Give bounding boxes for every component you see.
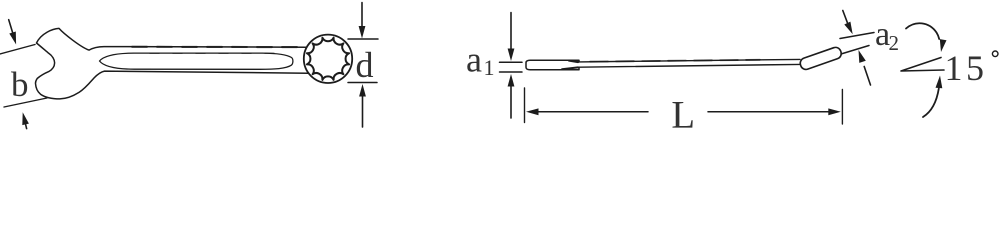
svg-text:a: a <box>466 40 482 80</box>
svg-text:1: 1 <box>484 55 495 80</box>
svg-text:d: d <box>356 45 374 85</box>
svg-text:1: 1 <box>945 48 963 88</box>
svg-text:5: 5 <box>966 48 984 88</box>
svg-text:b: b <box>11 65 29 104</box>
svg-text:L: L <box>671 95 695 137</box>
svg-text:2: 2 <box>889 31 900 55</box>
